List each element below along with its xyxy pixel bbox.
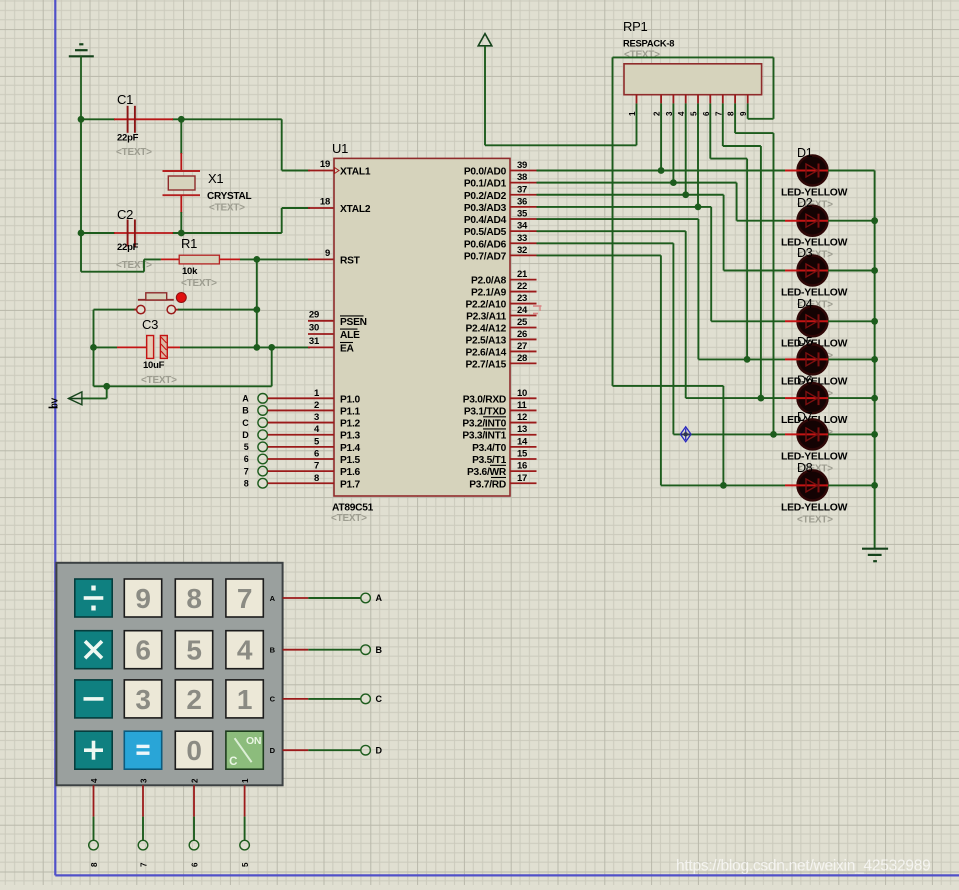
svg-text:https://blog.csdn.net/weixin_4: https://blog.csdn.net/weixin_42532989 [676,858,930,875]
wire C1 row [81,118,115,120]
svg-text:21: 21 [517,269,528,280]
ground (bottom right) [862,548,888,550]
svg-text:38: 38 [517,172,527,183]
svg-text:3: 3 [135,684,150,715]
terminal D (keypad) [361,745,371,755]
keypad key 1 [226,680,263,718]
keypad key 6 [124,631,161,669]
svg-text:9: 9 [325,248,330,259]
junction button-rail [253,306,260,313]
junction RP1 pin6 / D5 [744,356,751,363]
capacitor C1 [114,118,173,120]
pin stub RP1 pin5 [697,95,699,104]
svg-text:P3.1/TXD: P3.1/TXD [464,406,506,417]
pin stub RP1 pin3 [672,95,674,104]
wire button right [178,309,257,311]
pin stub ALE pin30 [308,333,334,335]
svg-text:P2.7/A15: P2.7/A15 [466,359,507,370]
svg-text:LED-YELLOW: LED-YELLOW [781,188,848,199]
keypad key 7 [226,579,263,617]
pin stub P0.2 pin37 [510,194,537,196]
pin stub RP1 pin6 [709,95,711,104]
terminal arrow (left) [68,392,82,405]
svg-text:P1.1: P1.1 [340,406,361,417]
svg-text:30: 30 [309,323,319,334]
push button [134,309,137,311]
svg-text:24: 24 [517,305,528,316]
svg-text:10k: 10k [182,266,198,277]
svg-text:39: 39 [517,160,527,171]
svg-text:8: 8 [314,473,319,484]
pin stub P0.3 pin36 [510,206,537,208]
svg-text:33: 33 [517,233,527,244]
svg-text:19: 19 [320,159,330,170]
svg-text:26: 26 [517,329,527,340]
svg-text:P2.4/A12: P2.4/A12 [466,323,507,334]
svg-text:10uF: 10uF [143,360,165,371]
svg-text:RESPACK-8: RESPACK-8 [623,38,674,49]
capacitor C2 [114,232,173,234]
svg-text:7: 7 [237,583,252,614]
pin stub P0.0 pin39 [510,170,537,172]
svg-text:P3.4/T0: P3.4/T0 [472,443,507,454]
svg-text:P0.4/AD4: P0.4/AD4 [464,215,507,226]
svg-text:P0.0/AD0: P0.0/AD0 [464,167,507,178]
capacitor C3 [117,346,147,348]
terminal A (P1.0) [258,394,268,404]
wire RP1 pin4 to P0.2 [685,103,687,194]
svg-text:1: 1 [237,684,252,715]
svg-text:P2.1/A9: P2.1/A9 [471,288,507,299]
svg-text:15: 15 [517,449,528,460]
svg-text:C: C [270,695,276,704]
svg-text:6: 6 [244,454,249,464]
svg-text:D5: D5 [797,335,813,349]
wire RP1 pin8 elbow [734,103,736,133]
svg-text:12: 12 [517,412,527,423]
wire keypad row A [283,597,309,599]
svg-text:B: B [242,406,249,416]
svg-text:34: 34 [517,221,528,232]
svg-text:25: 25 [517,317,528,328]
wire net P0.7 route [537,254,661,256]
LED D1 (LED-YELLOW) [798,156,828,186]
svg-text:D8: D8 [797,461,813,475]
svg-text:<TEXT>: <TEXT> [209,203,245,214]
junction rail D5 [871,356,878,363]
wire net P0.0 row [537,170,786,172]
pin stub RP1 pin4 [685,95,687,104]
svg-text:P2.6/A14: P2.6/A14 [466,347,507,358]
wire RP1 pin6 elbow [709,103,711,158]
svg-text:P1.4: P1.4 [340,443,361,454]
sheet border (blue) [54,0,56,875]
terminal 8 (keypad bottom) [89,840,99,850]
wire net P0.3 route [537,206,712,208]
svg-text:D4: D4 [797,297,813,311]
svg-text:0: 0 [186,735,201,766]
wire D1 cathode [828,170,875,172]
wire C3 to EA [180,346,310,348]
pin stub P3.7 pin17 [510,482,537,484]
svg-text:D: D [242,430,249,440]
terminal 5 (P1.4) [258,442,268,452]
svg-text:A: A [376,593,383,603]
pin stub RP1 pin1 [636,95,638,104]
svg-text:D: D [270,746,276,755]
wire net P0.4 route [537,218,699,220]
pin stub P0.4 pin35 [510,218,537,220]
svg-text:EA: EA [340,343,355,354]
wire C3 left rail [93,310,95,387]
svg-text:CRYSTAL: CRYSTAL [207,191,252,202]
junction RP1 pin4 / P0.2 [682,191,689,198]
wire bottom loop [271,347,273,386]
svg-text:P0.2/AD2: P0.2/AD2 [464,191,507,202]
origin marker (blue) [680,427,691,442]
junction rail D7 [871,431,878,438]
svg-text:P1.5: P1.5 [340,455,361,466]
keypad key 0 [175,731,212,769]
pin stub RP1 pin7 [722,95,724,104]
LED D5 (LED-YELLOW) [798,344,828,374]
svg-text:LED-YELLOW: LED-YELLOW [781,451,848,462]
pin stub XTAL1 pin19 [308,170,334,172]
svg-text:22pF: 22pF [117,133,139,144]
wire net P0.6 route [537,242,674,244]
wire RST vertical rail [256,259,258,347]
power terminal VCC (arrow up) [478,34,492,46]
terminal 5 (keypad bottom) [240,840,250,850]
junction RP1 pin7 / D6 [758,395,765,402]
svg-text:23: 23 [517,293,527,304]
junction RP1 pin2 / P0.0 [658,167,665,174]
svg-text:D7: D7 [797,410,813,424]
svg-text:ALE: ALE [340,330,360,341]
terminal 7 (P1.6) [258,466,268,476]
svg-text:P2.3/A11: P2.3/A11 [466,312,506,323]
svg-text:16: 16 [517,461,527,472]
svg-text:6: 6 [314,449,319,460]
svg-text:31: 31 [309,336,320,347]
junction C3-left [90,344,97,351]
pin stub XTAL2 pin18 [308,207,334,209]
svg-text:P2.0/A8: P2.0/A8 [471,276,507,287]
junction RP1 pin9 / D8 [720,482,727,489]
svg-text:10: 10 [517,388,527,399]
junction RST [253,256,260,263]
crystal X1 [163,170,201,172]
keypad key 4 [226,631,263,669]
svg-text:C3: C3 [142,317,158,332]
LED D2 (LED-YELLOW) [798,206,828,236]
pin stub P2.3 pin24 [510,315,537,317]
wire XTAL2 net [281,208,283,233]
wire keypad column 6 [193,785,195,816]
junction RP1 pin5 / P0.3 [695,203,702,210]
wire RP1 pin9 over-the-top [747,103,749,118]
svg-text:13: 13 [517,424,527,435]
pin stub P3.1 pin11 [510,409,537,411]
svg-text:P1.0: P1.0 [340,394,361,405]
pin stub P0.7 pin32 [510,254,537,256]
pin stub P2.0 pin21 [510,279,537,281]
junction arrow stem [103,383,110,390]
svg-text:37: 37 [517,184,527,195]
svg-text:18: 18 [320,197,330,208]
svg-text:D: D [376,745,383,755]
terminal C (keypad) [361,694,371,704]
svg-text:17: 17 [517,473,527,484]
LED D7 (LED-YELLOW) [798,419,828,449]
wire VCC to RP1 pin1 [484,46,486,146]
wire keypad row C [283,698,309,700]
svg-text:<TEXT>: <TEXT> [141,375,177,386]
svg-text:0V: 0V [50,398,60,408]
svg-text:LED-YELLOW: LED-YELLOW [781,288,848,299]
terminal 6 (P1.5) [258,454,268,464]
svg-text:C: C [376,694,383,704]
wire XTAL1 net [281,119,283,170]
svg-text:5: 5 [186,635,201,666]
wire RP1 pin3 to P0.1 [672,103,674,182]
svg-text:B: B [270,646,276,655]
LED D3 (LED-YELLOW) [798,256,828,286]
terminal B (keypad) [361,645,371,655]
pin stub P2.5 pin26 [510,338,537,340]
wire keypad row B [283,649,309,651]
keypad key ÷ [75,579,112,617]
pin stub RP1 pin8 [734,95,736,104]
wire cathode rail [874,171,876,549]
pin stub P3.6 pin16 [510,470,537,472]
pin stub P3.0 pin10 [510,397,537,399]
junction C2-left [78,230,85,237]
svg-text:C: C [242,418,249,428]
svg-text:U1: U1 [332,141,348,156]
keypad key 8 [175,579,212,617]
svg-text:P0.7/AD7: P0.7/AD7 [464,251,507,262]
wire net P0.1 route [537,182,737,184]
svg-text:P0.5/AD5: P0.5/AD5 [464,227,507,238]
red edit cursor near pin 23 [533,305,542,307]
svg-text:XTAL2: XTAL2 [340,204,371,215]
terminal B (P1.1) [258,406,268,416]
keypad key − [75,680,112,718]
LED D6 (LED-YELLOW) [798,383,828,413]
svg-text:11: 11 [517,400,528,411]
svg-text:28: 28 [517,353,527,364]
svg-text:R1: R1 [181,236,197,251]
wire button left [94,309,138,311]
svg-text:29: 29 [309,309,319,320]
svg-text:22pF: 22pF [117,242,139,253]
junction C1-right [178,116,185,123]
svg-text:4: 4 [237,635,253,666]
pin stub P2.2 pin23 [510,303,537,305]
svg-text:D6: D6 [797,374,813,388]
junction C3-right rail [253,344,260,351]
svg-text:AT89C51: AT89C51 [332,503,374,514]
svg-text:P1.7: P1.7 [340,479,361,490]
svg-text:6: 6 [135,635,150,666]
svg-text:32: 32 [517,245,527,256]
pin stub RP1 pin2 [660,95,662,104]
pin stub P3.2 pin12 [510,422,537,424]
svg-text:7: 7 [314,461,319,472]
svg-text:<TEXT>: <TEXT> [116,147,152,158]
svg-text:LED-YELLOW: LED-YELLOW [781,502,848,513]
pin stub P0.6 pin33 [510,242,537,244]
wire arrow stem [106,386,108,398]
svg-text:P1.6: P1.6 [340,467,361,478]
svg-text:P3.2/INT0: P3.2/INT0 [462,419,506,430]
keypad key + [75,731,112,769]
wire D2 cathode [828,220,875,222]
wire net P0.2 route [537,194,724,196]
svg-text:PSEN: PSEN [340,317,367,328]
svg-text:9: 9 [135,583,150,614]
wire D6 cathode [828,397,875,399]
svg-text:8: 8 [244,478,249,488]
pin stub P0.1 pin38 [510,182,537,184]
pin stub P3.5 pin15 [510,458,537,460]
resistor R1 [161,258,179,260]
LED D8 (LED-YELLOW) [798,470,828,500]
junction rail D6 [871,395,878,402]
keypad key ON/C [226,731,263,769]
svg-text:RP1: RP1 [623,19,648,34]
svg-text:A: A [270,594,276,603]
svg-text:7: 7 [244,466,249,476]
wire D8 cathode [828,484,875,486]
junction C1-left [78,116,85,123]
wire RP1 pin7 elbow [722,103,724,146]
svg-text:5: 5 [244,442,249,452]
svg-text:P3.0/RXD: P3.0/RXD [463,394,506,405]
svg-text:RST: RST [340,256,361,267]
junction rail D4 [871,318,878,325]
svg-text:P2.5/A13: P2.5/A13 [466,335,507,346]
wire D3 cathode [828,270,875,272]
ground (top left) [69,55,94,57]
svg-text:<TEXT>: <TEXT> [797,514,833,525]
svg-text:A: A [242,394,249,404]
wire RST net [240,258,310,260]
junction rail D8 [871,482,878,489]
svg-text:P1.3: P1.3 [340,431,361,442]
wire keypad row D [283,749,309,751]
junction RP1 pin3 / P0.1 [670,179,677,186]
svg-text:P1.2: P1.2 [340,419,361,430]
junction rail D2 [871,217,878,224]
svg-text:<TEXT>: <TEXT> [116,260,152,271]
keypad key 3 [124,680,161,718]
wire ground rail to R1 [80,119,82,271]
svg-text:27: 27 [517,341,527,352]
svg-text:8: 8 [186,583,201,614]
wire X1 bottom lead [180,195,182,213]
svg-text:P3.5/T1: P3.5/T1 [472,455,507,466]
svg-text:2: 2 [314,400,319,411]
pin stub EA pin31 [308,346,334,348]
svg-text:<TEXT>: <TEXT> [331,513,367,524]
svg-text:ON: ON [246,735,261,747]
svg-text:X1: X1 [208,171,223,186]
wire X1 top lead [180,119,182,154]
svg-text:P0.1/AD1: P0.1/AD1 [464,179,507,190]
pin stub RST pin9 [308,258,334,260]
svg-text:P0.6/AD6: P0.6/AD6 [464,239,507,250]
svg-text:XTAL1: XTAL1 [340,167,371,178]
junction C2-right [178,230,185,237]
resistor-pack RP1 body [624,64,762,95]
terminal A (keypad) [361,593,371,603]
terminal 8 (P1.7) [258,478,268,488]
svg-text:P3.7/RD: P3.7/RD [469,479,506,490]
pin stub PSEN pin29 [308,320,334,322]
wire C2 row [81,232,115,234]
junction rail D3 [871,267,878,274]
svg-text:P3.3/INT1: P3.3/INT1 [462,431,506,442]
op-amp U1 body (AT89C51 MCU) [334,158,510,496]
terminal 6 (keypad bottom) [189,840,199,850]
svg-text:<TEXT>: <TEXT> [624,50,660,61]
svg-text:2: 2 [186,684,201,715]
wire RP1 pin5 to P0.3 [697,103,699,206]
pin stub P3.3 pin13 [510,434,537,436]
keypad key = [124,731,161,769]
wire keypad column 7 [142,785,144,816]
svg-text:C: C [229,756,237,768]
LED D4 (LED-YELLOW) [798,306,828,336]
wire RP1 pin2 to P0.0 [660,103,662,170]
pin stub P2.6 pin27 [510,350,537,352]
keypad key 9 [124,579,161,617]
junction EA loop [268,344,275,351]
pin stub P0.5 pin34 [510,230,537,232]
svg-text:C1: C1 [117,92,133,107]
svg-text:P3.6/WR: P3.6/WR [467,467,507,478]
terminal C (P1.2) [258,418,268,428]
wire D5 cathode [828,358,875,360]
svg-text:D3: D3 [797,246,813,260]
svg-text:<TEXT>: <TEXT> [181,278,217,289]
svg-text:P0.3/AD3: P0.3/AD3 [464,203,507,214]
svg-text:LED-YELLOW: LED-YELLOW [781,238,848,249]
wire D7 cathode [828,433,875,435]
pin stub RP1 pin9 [747,95,749,104]
wire keypad column 5 [244,785,246,816]
svg-text:C2: C2 [117,207,133,222]
keypad key 5 [175,631,212,669]
junction RP1 pin8 / D7 [770,431,777,438]
keypad key × [75,631,112,669]
keypad body [56,563,282,786]
wire keypad column 8 [93,785,95,816]
svg-text:22: 22 [517,281,527,292]
svg-text:P2.2/A10: P2.2/A10 [466,300,507,311]
pin stub P2.7 pin28 [510,362,537,364]
pin stub P2.4 pin25 [510,326,537,328]
svg-text:3: 3 [314,412,319,423]
svg-text:35: 35 [517,209,528,220]
terminal 7 (keypad bottom) [138,840,148,850]
terminal D (P1.3) [258,430,268,440]
svg-text:B: B [376,645,383,655]
svg-text:D2: D2 [797,196,813,210]
pin stub P3.4 pin14 [510,446,537,448]
